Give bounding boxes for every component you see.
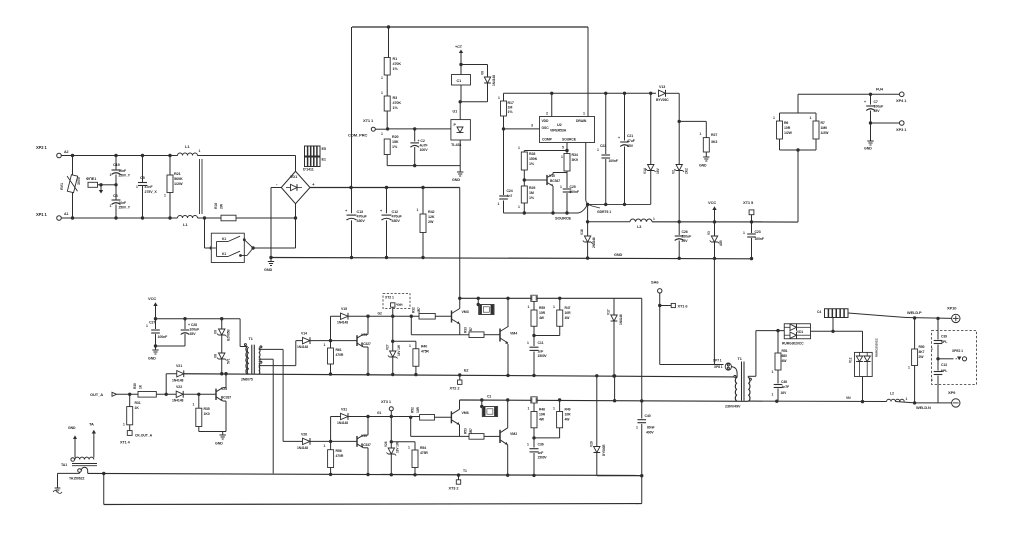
- svg-text:V9: V9: [214, 330, 218, 334]
- svg-text:470K: 470K: [393, 62, 402, 66]
- svg-text:E2: E2: [464, 369, 468, 373]
- svg-text:10R: 10R: [416, 407, 420, 413]
- svg-text:C24: C24: [507, 189, 513, 193]
- svg-text:18V 1W: 18V 1W: [397, 345, 401, 356]
- svg-text:35V: 35V: [874, 109, 881, 113]
- svg-text:1: 1: [381, 76, 383, 80]
- svg-text:V27: V27: [386, 344, 390, 350]
- svg-text:R6: R6: [784, 121, 788, 125]
- svg-text:C1: C1: [487, 395, 491, 399]
- svg-text:1M: 1M: [508, 106, 513, 110]
- svg-text:1: 1: [528, 305, 530, 309]
- svg-text:1: 1: [381, 91, 383, 95]
- svg-text:BC327: BC327: [361, 342, 371, 346]
- svg-text:VCC: VCC: [148, 296, 156, 301]
- svg-text:XT2 1: XT2 1: [385, 296, 394, 300]
- svg-text:100nF: 100nF: [158, 335, 169, 339]
- svg-text:R56: R56: [336, 449, 342, 453]
- svg-text:R55: R55: [539, 306, 545, 310]
- svg-text:R51: R51: [782, 349, 788, 353]
- svg-text:VM3: VM3: [462, 310, 469, 314]
- svg-text:300V: 300V: [77, 176, 81, 185]
- svg-text:A85: A85: [719, 240, 723, 246]
- svg-text:1: 1: [518, 205, 520, 209]
- svg-text:XT1 6: XT1 6: [678, 304, 689, 309]
- svg-text:250V_Y: 250V_Y: [119, 174, 131, 178]
- svg-text:C27: C27: [149, 321, 155, 325]
- svg-text:A2: A2: [64, 150, 68, 154]
- svg-text:V18: V18: [580, 229, 584, 235]
- svg-text:35V: 35V: [627, 144, 634, 148]
- svg-text:100nF: 100nF: [755, 237, 764, 241]
- svg-text:2W: 2W: [428, 220, 434, 224]
- svg-text:5: 5: [562, 146, 564, 150]
- svg-text:1: 1: [906, 397, 908, 401]
- svg-text:XP8 1: XP8 1: [714, 365, 723, 369]
- svg-text:R49: R49: [565, 408, 571, 412]
- svg-text:R7: R7: [821, 121, 825, 125]
- svg-text:C12: C12: [392, 210, 399, 214]
- svg-text:NPL: NPL: [941, 340, 947, 344]
- svg-text:BC547: BC547: [550, 179, 560, 183]
- svg-text:430V: 430V: [392, 219, 401, 223]
- svg-text:GND: GND: [614, 253, 622, 257]
- svg-text:VIPER53A: VIPER53A: [550, 129, 567, 133]
- svg-text:150K: 150K: [529, 157, 538, 161]
- svg-text:V17: V17: [607, 309, 611, 315]
- svg-text:1: 1: [518, 146, 520, 150]
- svg-text:R54: R54: [420, 446, 426, 450]
- svg-text:XT3 1: XT3 1: [381, 399, 392, 404]
- svg-text:BC337: BC337: [221, 396, 231, 400]
- svg-text:V31: V31: [341, 408, 347, 412]
- svg-text:VD1: VD1: [797, 330, 803, 334]
- svg-text:GND: GND: [148, 357, 156, 361]
- svg-text:1: 1: [110, 204, 112, 208]
- svg-text:R16: R16: [214, 203, 218, 209]
- svg-text:C21: C21: [627, 134, 633, 138]
- svg-text:V14: V14: [301, 332, 307, 336]
- svg-text:GND: GND: [864, 147, 872, 151]
- svg-text:FU4: FU4: [876, 88, 884, 92]
- svg-text:VM2: VM2: [510, 432, 517, 436]
- svg-text:1: 1: [560, 185, 562, 189]
- svg-text:XP1 1: XP1 1: [36, 212, 47, 217]
- svg-text:2: 2: [546, 112, 548, 116]
- svg-text:R40: R40: [421, 345, 427, 349]
- svg-text:1: 1: [527, 443, 529, 447]
- svg-text:47nF: 47nF: [145, 185, 154, 189]
- svg-text:1: 1: [583, 112, 585, 116]
- svg-text:DRAIN: DRAIN: [576, 119, 587, 123]
- svg-text:XP3 1: XP3 1: [896, 127, 907, 132]
- svg-text:1: 1: [408, 446, 410, 450]
- svg-text:R28: R28: [529, 152, 535, 156]
- svg-text:C39: C39: [941, 335, 947, 339]
- svg-text:230V/49V: 230V/49V: [725, 405, 741, 409]
- svg-text:T1: T1: [463, 469, 467, 473]
- svg-text:R42: R42: [428, 210, 435, 214]
- svg-text:R52: R52: [411, 407, 415, 413]
- svg-text:COM_PRC: COM_PRC: [348, 133, 368, 138]
- svg-text:3K9: 3K9: [572, 158, 578, 162]
- svg-text:475R: 475R: [421, 350, 429, 354]
- svg-text:1N4148: 1N4148: [172, 379, 183, 383]
- svg-text:K1: K1: [222, 252, 226, 256]
- svg-text:1%: 1%: [393, 106, 399, 110]
- svg-text:RURG3020CC: RURG3020CC: [782, 342, 804, 346]
- svg-text:XP9: XP9: [948, 390, 956, 395]
- svg-text:1: 1: [773, 116, 775, 120]
- svg-text:L3: L3: [637, 225, 641, 229]
- svg-text:V8: V8: [214, 354, 218, 358]
- svg-text:V3: V3: [707, 231, 711, 235]
- svg-text:ЧУН: ЧУН: [396, 303, 403, 307]
- svg-text:XP7 1: XP7 1: [713, 359, 722, 363]
- svg-text:2W: 2W: [220, 203, 224, 209]
- svg-text:V26: V26: [301, 433, 307, 437]
- svg-text:C23: C23: [755, 230, 761, 234]
- svg-text:C5: C5: [140, 176, 145, 180]
- svg-text:VM6: VM6: [462, 411, 469, 415]
- svg-text:100uF: 100uF: [190, 328, 201, 332]
- svg-text:1nF: 1nF: [538, 451, 544, 455]
- svg-text:470uF: 470uF: [357, 215, 368, 219]
- svg-text:RURG3020CC: RURG3020CC: [875, 337, 879, 357]
- svg-text:R30: R30: [133, 383, 137, 389]
- svg-text:R50: R50: [919, 345, 925, 349]
- svg-text:1: 1: [908, 366, 910, 370]
- svg-text:R33: R33: [464, 327, 468, 333]
- svg-text:1: 1: [417, 208, 419, 212]
- svg-text:1nF: 1nF: [538, 350, 544, 354]
- svg-text:1: 1: [636, 426, 638, 430]
- svg-text:BYV26C: BYV26C: [656, 98, 669, 102]
- svg-text:V2: V2: [672, 170, 676, 174]
- svg-text:C3: C3: [113, 194, 118, 198]
- svg-text:A1: A1: [64, 212, 68, 216]
- svg-text:10R: 10R: [784, 126, 791, 130]
- svg-text:12K: 12K: [428, 215, 435, 219]
- svg-text:1: 1: [772, 393, 774, 397]
- svg-text:1N4148: 1N4148: [492, 75, 496, 86]
- svg-text:COMP: COMP: [542, 138, 553, 142]
- svg-text:RV1: RV1: [60, 183, 64, 190]
- svg-text:1/2W: 1/2W: [821, 131, 830, 135]
- svg-text:V6: V6: [481, 71, 485, 75]
- svg-text:VCC: VCC: [708, 200, 716, 205]
- svg-text:10nF: 10nF: [119, 169, 127, 173]
- svg-text:VDD: VDD: [542, 119, 550, 123]
- svg-text:R17: R17: [508, 101, 514, 105]
- svg-text:1N4148: 1N4148: [297, 446, 308, 450]
- svg-text:2K2: 2K2: [685, 168, 689, 174]
- svg-text:TA150622: TA150622: [69, 477, 84, 481]
- svg-text:R53: R53: [464, 428, 468, 434]
- svg-text:2N5248: 2N5248: [592, 237, 596, 248]
- svg-text:C7: C7: [874, 100, 878, 104]
- svg-text:E1: E1: [322, 158, 326, 162]
- svg-text:1K: 1K: [135, 406, 140, 410]
- svg-text:T1: T1: [738, 357, 742, 361]
- svg-text:C38: C38: [781, 380, 787, 384]
- svg-text:4R7: 4R7: [417, 307, 421, 313]
- svg-text:1: 1: [324, 444, 326, 448]
- svg-text:1: 1: [164, 194, 166, 198]
- svg-text:35V: 35V: [190, 332, 197, 336]
- svg-text:E5: E5: [322, 147, 326, 151]
- svg-text:4K7: 4K7: [919, 350, 925, 354]
- svg-text:470K: 470K: [393, 101, 402, 105]
- svg-text:1%: 1%: [392, 145, 398, 149]
- svg-text:+ C2: + C2: [418, 139, 425, 143]
- svg-text:47uF: 47uF: [627, 139, 636, 143]
- svg-text:R61: R61: [336, 348, 342, 352]
- svg-text:+ C28: + C28: [188, 323, 197, 327]
- svg-text:+: +: [864, 100, 866, 104]
- svg-text:OSC: OSC: [542, 126, 550, 130]
- svg-text:VM4: VM4: [510, 332, 517, 336]
- svg-text:XT1 5: XT1 5: [743, 200, 754, 205]
- svg-text:BY500B: BY500B: [602, 444, 606, 456]
- svg-text:C25: C25: [570, 185, 576, 189]
- svg-text:CK.OUT_A: CK.OUT_A: [135, 434, 153, 438]
- svg-text:1: 1: [553, 305, 555, 309]
- svg-text:1: 1: [123, 423, 125, 427]
- svg-text:1: 1: [498, 202, 500, 206]
- svg-text:K1: K1: [222, 237, 226, 241]
- svg-text:1: 1: [743, 231, 745, 235]
- svg-text:1: 1: [528, 407, 530, 411]
- svg-text:V28: V28: [384, 441, 388, 447]
- svg-text:GND: GND: [68, 426, 76, 430]
- svg-text:BC337: BC337: [361, 443, 371, 447]
- svg-text:V23: V23: [361, 333, 367, 337]
- svg-text:XP4 1: XP4 1: [896, 98, 907, 103]
- svg-text:G1: G1: [377, 411, 381, 415]
- svg-text:D'1411: D'1411: [303, 168, 314, 172]
- svg-text:+: +: [618, 136, 620, 140]
- svg-text:10R: 10R: [539, 311, 546, 315]
- svg-text:1: 1: [931, 378, 933, 382]
- svg-text:1500V: 1500V: [538, 456, 548, 460]
- svg-text:C1: C1: [457, 79, 462, 83]
- svg-text:10nF: 10nF: [119, 201, 127, 205]
- svg-text:1: 1: [561, 155, 563, 159]
- svg-text:15K: 15K: [392, 140, 399, 144]
- svg-text:R27: R27: [711, 133, 717, 137]
- svg-text:1: 1: [772, 370, 774, 374]
- svg-text:10R: 10R: [539, 413, 546, 417]
- svg-text:680: 680: [782, 354, 788, 358]
- svg-text:R31: R31: [135, 401, 141, 405]
- svg-text:XT2 2: XT2 2: [450, 386, 461, 391]
- svg-text:275V_X: 275V_X: [145, 190, 158, 194]
- svg-text:GND: GND: [452, 178, 460, 182]
- svg-text:R29: R29: [529, 186, 535, 190]
- svg-text:4u7F: 4u7F: [420, 144, 429, 148]
- svg-text:1M: 1M: [529, 191, 534, 195]
- svg-text:470R: 470R: [336, 353, 344, 357]
- svg-text:R21: R21: [174, 172, 181, 176]
- svg-text:1: 1: [498, 96, 500, 100]
- svg-text:4n7F: 4n7F: [782, 385, 790, 389]
- svg-text:C36: C36: [538, 443, 544, 447]
- svg-text:R1: R1: [393, 57, 398, 61]
- svg-text:L2: L2: [890, 392, 894, 396]
- svg-text:430V: 430V: [357, 219, 366, 223]
- svg-text:100nF: 100nF: [609, 159, 618, 163]
- svg-text:2N6075: 2N6075: [241, 378, 253, 382]
- svg-text:1N4148: 1N4148: [337, 321, 348, 325]
- svg-text:XP2 1: XP2 1: [36, 145, 47, 150]
- svg-text:XT1 1: XT1 1: [363, 118, 374, 123]
- svg-text:470R: 470R: [336, 454, 344, 458]
- svg-text:1N4148: 1N4148: [172, 399, 183, 403]
- svg-text:SOURCE: SOURCE: [562, 138, 577, 142]
- svg-text:1K0: 1K0: [204, 412, 210, 416]
- svg-text:V12: V12: [849, 357, 853, 363]
- svg-text:R47: R47: [565, 306, 571, 310]
- svg-text:V1A: V1A: [643, 167, 647, 174]
- svg-text:1: 1: [653, 217, 655, 221]
- svg-text:100V: 100V: [420, 148, 429, 152]
- svg-text:V15: V15: [341, 307, 347, 311]
- svg-text:1: 1: [199, 149, 201, 153]
- svg-text:16V: 16V: [781, 391, 788, 395]
- svg-text:G2: G2: [378, 312, 382, 316]
- svg-text:1: 1: [324, 343, 326, 347]
- svg-text:C26: C26: [682, 230, 688, 234]
- svg-text:SOURCE: SOURCE: [555, 216, 572, 221]
- svg-text:C11: C11: [538, 341, 544, 345]
- svg-text:R3: R3: [393, 96, 398, 100]
- svg-text:R46: R46: [539, 408, 545, 412]
- svg-text:XT1 4: XT1 4: [120, 441, 131, 445]
- svg-text:1%: 1%: [393, 67, 399, 71]
- svg-text:10R: 10R: [565, 311, 572, 315]
- svg-text:GND: GND: [215, 442, 223, 446]
- svg-text:100uF: 100uF: [874, 105, 885, 109]
- svg-text:V29: V29: [590, 441, 594, 447]
- svg-text:4R7: 4R7: [469, 428, 473, 434]
- svg-text:BZV85B: BZV85B: [227, 329, 231, 341]
- svg-text:1: 1: [381, 132, 383, 136]
- svg-text:475R: 475R: [420, 451, 428, 455]
- svg-text:R20: R20: [392, 135, 399, 139]
- svg-text:1N4148: 1N4148: [619, 314, 623, 325]
- svg-text:V13: V13: [659, 85, 665, 89]
- svg-text:1N4148: 1N4148: [337, 421, 348, 425]
- svg-text:XP10: XP10: [947, 306, 957, 311]
- svg-text:GND: GND: [264, 268, 272, 272]
- svg-text:XPE2 1: XPE2 1: [952, 349, 963, 353]
- svg-text:V21: V21: [176, 364, 182, 368]
- svg-text:3: 3: [531, 124, 533, 128]
- svg-text:R35: R35: [204, 407, 210, 411]
- svg-text:SA6: SA6: [651, 280, 659, 285]
- svg-text:1: 1: [931, 347, 933, 351]
- svg-text:U2: U2: [557, 123, 562, 127]
- svg-text:1: 1: [193, 403, 195, 407]
- svg-text:TA1: TA1: [61, 463, 67, 467]
- svg-text:3K3: 3K3: [711, 140, 717, 144]
- svg-text:1M0: 1M0: [821, 126, 828, 130]
- svg-text:500nF: 500nF: [570, 190, 579, 194]
- svg-text:1: 1: [700, 132, 702, 136]
- svg-text:400V: 400V: [646, 431, 654, 435]
- svg-text:ФПЕ1: ФПЕ1: [86, 177, 96, 181]
- svg-text:4n7: 4n7: [507, 194, 513, 198]
- svg-text:TA: TA: [89, 422, 94, 427]
- svg-text:1/2W: 1/2W: [784, 131, 793, 135]
- svg-text:560K: 560K: [174, 177, 183, 181]
- svg-text:1: 1: [146, 324, 148, 328]
- svg-text:25V: 25V: [682, 239, 689, 243]
- svg-text:80nF: 80nF: [647, 426, 655, 430]
- svg-text:1: 1: [527, 341, 529, 345]
- svg-text:XT3 2: XT3 2: [449, 486, 460, 491]
- svg-text:470uF: 470uF: [392, 215, 403, 219]
- svg-text:C4: C4: [817, 310, 821, 314]
- svg-text:R34: R34: [572, 153, 578, 157]
- svg-text:18V 1W: 18V 1W: [396, 442, 400, 453]
- svg-text:WELD.P: WELD.P: [907, 310, 922, 315]
- svg-text:VN: VN: [846, 396, 851, 400]
- svg-text:16V: 16V: [656, 168, 660, 174]
- svg-text:+CT: +CT: [455, 45, 463, 49]
- svg-text:C22: C22: [600, 144, 606, 148]
- svg-text:1N4148: 1N4148: [297, 345, 308, 349]
- svg-text:U1: U1: [453, 110, 458, 114]
- svg-text:GND: GND: [699, 164, 707, 168]
- svg-text:1: 1: [409, 344, 411, 348]
- svg-text:10R: 10R: [565, 413, 572, 417]
- svg-text:C13: C13: [941, 363, 947, 367]
- svg-text:1/2W: 1/2W: [174, 182, 183, 186]
- svg-text:NPL: NPL: [941, 369, 947, 373]
- svg-text:1: 1: [110, 173, 112, 177]
- svg-text:5V1: 5V1: [227, 358, 231, 364]
- svg-text:250V_Y: 250V_Y: [119, 206, 131, 210]
- svg-text:1500V: 1500V: [538, 354, 548, 358]
- svg-text:T1: T1: [249, 337, 253, 341]
- svg-text:VD1: VD1: [290, 175, 297, 179]
- svg-text:R32: R32: [412, 307, 416, 313]
- svg-text:1: 1: [553, 407, 555, 411]
- svg-text:V10: V10: [549, 174, 555, 178]
- svg-text:220uF: 220uF: [682, 235, 693, 239]
- svg-text:GDRT6 1: GDRT6 1: [597, 210, 611, 214]
- svg-text:1: 1: [136, 185, 138, 189]
- svg-text:C40: C40: [645, 414, 651, 418]
- svg-text:1: 1: [597, 148, 599, 152]
- svg-text:C13: C13: [357, 210, 364, 214]
- svg-text:V22: V22: [176, 385, 182, 389]
- svg-text:C19: C19: [113, 163, 120, 167]
- svg-text:OUT_A: OUT_A: [90, 392, 103, 397]
- svg-text:WELD.N: WELD.N: [916, 405, 931, 410]
- svg-text:1: 1: [810, 116, 812, 120]
